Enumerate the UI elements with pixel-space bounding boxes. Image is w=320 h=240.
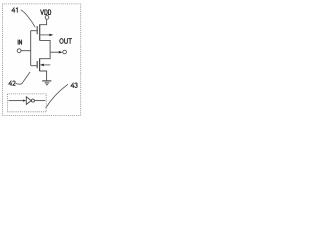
wire PMOS drain down to output node <box>40 40 50 52</box>
arrowhead at OUT <box>59 51 63 54</box>
OUT label <box>60 39 72 44</box>
wire VDD to PMOS source <box>40 19 47 24</box>
label 42 <box>9 81 16 86</box>
transistor Q41 PMOS bulk lead with outward arrow <box>40 34 53 37</box>
leader line 42 to NMOS <box>16 72 31 84</box>
label 43 <box>71 83 77 88</box>
wire output node down to NMOS drain <box>40 52 51 59</box>
wire IN to gate bus <box>21 50 31 52</box>
wire output node to OUT terminal <box>50 51 59 53</box>
leader line 41 to PMOS <box>21 10 36 28</box>
dashed inverter block boundary (inner) <box>8 94 47 112</box>
IN terminal circle <box>17 49 21 53</box>
transistor Q42 NMOS gate plate <box>36 61 38 68</box>
transistor Q41 PMOS gate lead <box>31 30 38 32</box>
inverter U43 triangle <box>26 97 31 105</box>
transistor Q42 NMOS bulk lead with inward arrow <box>40 64 50 67</box>
VDD label <box>41 10 51 15</box>
inverter U43 output wire <box>35 100 46 102</box>
gate bus wire (PMOS gate to NMOS gate) <box>30 31 32 66</box>
label 41 <box>12 8 17 13</box>
dashed block boundary (outer) <box>2 4 80 116</box>
OUT terminal circle <box>63 50 67 54</box>
inverter input arrowhead <box>23 100 26 102</box>
wire NMOS source to ground <box>40 71 47 81</box>
leader line 43 to inverter block <box>46 84 68 108</box>
IN label <box>18 40 22 44</box>
transistor Q42 NMOS gate lead <box>31 65 38 67</box>
transistor Q41 PMOS gate plate <box>36 26 38 34</box>
transistor Q41 PMOS channel plate <box>39 24 41 40</box>
VDD terminal circle <box>45 16 49 20</box>
inverter U43 input wire <box>9 100 24 102</box>
inverter U43 output bubble <box>31 99 34 102</box>
transistor Q42 NMOS channel plate <box>39 58 41 71</box>
ground <box>42 81 51 85</box>
